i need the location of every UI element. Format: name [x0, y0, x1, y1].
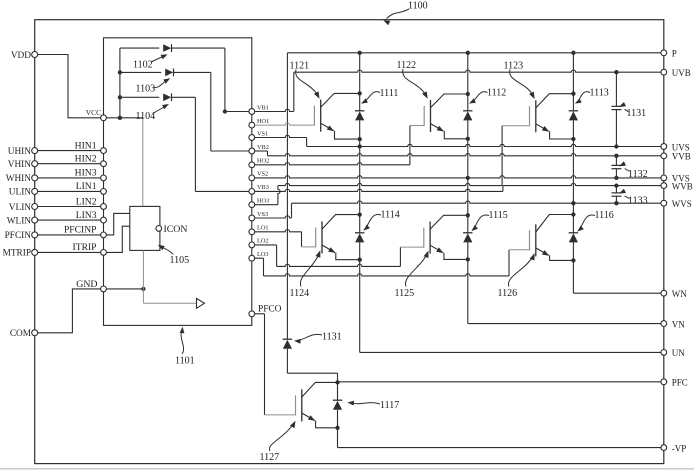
- IGBT 1126: [530, 215, 574, 261]
- label 1101: [175, 327, 195, 367]
- IC pin VB3: [249, 184, 269, 194]
- IC pin GND: [76, 279, 106, 292]
- wire VN: [468, 323, 661, 325]
- svg-text:1131: 1131: [322, 332, 342, 343]
- svg-text:1133: 1133: [628, 195, 648, 206]
- svg-text:1101: 1101: [175, 356, 195, 367]
- svg-text:1102: 1102: [133, 59, 153, 70]
- label 1125: [395, 251, 429, 299]
- svg-text:PFCO: PFCO: [258, 305, 282, 315]
- svg-text:VDD: VDD: [11, 51, 31, 61]
- IC pin HO3: [249, 198, 269, 208]
- free-wheel diode 1117: [333, 400, 342, 410]
- svg-text:1103: 1103: [136, 83, 156, 94]
- label 1112: [469, 87, 506, 103]
- pin WHIN: [6, 174, 38, 184]
- wire VS1 to UVS: [255, 135, 661, 148]
- wire VCC internal bus: [106, 48, 142, 120]
- svg-text:UN: UN: [672, 348, 685, 358]
- IC pin HIN2: [75, 154, 107, 167]
- IC pin VB1: [249, 104, 269, 114]
- IGBT 1121: [314, 93, 359, 139]
- pin VN: [661, 319, 685, 329]
- label 1121: [290, 60, 320, 99]
- bootstrap diode 1104: [120, 93, 249, 191]
- svg-text:LO3: LO3: [257, 251, 269, 258]
- svg-text:1132: 1132: [628, 169, 648, 180]
- wire PFCIN to PFCINP: [38, 234, 101, 236]
- pin ICON: [156, 224, 188, 235]
- svg-text:VLIN: VLIN: [9, 203, 31, 213]
- node PFC emitter: [335, 410, 660, 448]
- label 1123: [504, 60, 535, 99]
- wire VB2 to VVB: [255, 151, 661, 158]
- wire boost diode branch: [287, 53, 337, 383]
- IC pin PFCINP: [64, 225, 106, 238]
- svg-text:1117: 1117: [380, 400, 399, 411]
- pin WVS: [661, 199, 692, 209]
- label 1116: [577, 210, 614, 232]
- bootstrap capacitor 1133: [611, 186, 621, 204]
- svg-text:WHIN: WHIN: [6, 174, 32, 184]
- IGBT 1127: [296, 382, 338, 427]
- pin VHIN: [8, 160, 38, 170]
- svg-text:HO2: HO2: [257, 158, 269, 165]
- svg-text:VB1: VB1: [257, 104, 269, 111]
- pin PFC: [661, 378, 688, 388]
- label 1132: [619, 161, 648, 180]
- svg-text:LIN3: LIN3: [76, 210, 97, 221]
- label 1102: [133, 54, 168, 70]
- node U column lower: [358, 147, 362, 353]
- open arrow at GND branch: [197, 298, 205, 308]
- svg-text:ULIN: ULIN: [9, 188, 31, 198]
- svg-text:1122: 1122: [397, 60, 417, 71]
- label 1105: [158, 245, 189, 266]
- svg-text:VHIN: VHIN: [8, 160, 32, 170]
- svg-text:MTRIP: MTRIP: [3, 249, 31, 259]
- svg-text:VN: VN: [672, 319, 685, 329]
- svg-text:ICON: ICON: [164, 224, 188, 235]
- wire WHIN to HIN3: [38, 177, 101, 179]
- boost diode 1131: [283, 339, 292, 349]
- svg-text:ITRIP: ITRIP: [73, 242, 97, 253]
- node U column upper: [358, 53, 362, 149]
- free-wheel diode 1116: [569, 233, 578, 243]
- label 1122: [397, 60, 428, 99]
- svg-text:1126: 1126: [498, 288, 518, 299]
- IGBT 1125: [424, 215, 468, 259]
- label 1131 boost: [294, 332, 342, 344]
- svg-text:WN: WN: [672, 289, 687, 299]
- svg-text:1105: 1105: [170, 255, 190, 266]
- wire VB3 to WVB: [255, 183, 661, 191]
- svg-text:HO1: HO1: [257, 118, 269, 125]
- IC pin HIN1: [75, 140, 107, 153]
- wire ULIN to LIN1: [38, 190, 101, 192]
- svg-text:1100: 1100: [408, 0, 428, 11]
- label 1126: [498, 253, 535, 299]
- free-wheel diode 1113: [569, 111, 578, 121]
- svg-text:1113: 1113: [590, 87, 609, 98]
- pin PFCIN: [5, 231, 38, 241]
- free-wheel diode 1112: [463, 111, 472, 121]
- IC pin VS1: [249, 130, 268, 140]
- svg-text:VVB: VVB: [672, 152, 691, 162]
- svg-text:WVS: WVS: [672, 199, 692, 209]
- IGBT 1122: [424, 94, 468, 139]
- wire LO3 to gate 1126: [255, 250, 530, 276]
- svg-text:HO3: HO3: [257, 198, 269, 205]
- free-wheel diode 1115: [463, 233, 472, 243]
- IC pin LIN2: [76, 196, 107, 209]
- svg-text:1116: 1116: [595, 210, 614, 221]
- wire WLIN to LIN3: [38, 219, 101, 221]
- bootstrap capacitor 1132: [611, 156, 621, 178]
- pin COM: [10, 329, 38, 339]
- svg-text:HIN2: HIN2: [75, 154, 97, 165]
- label 1127: [260, 421, 296, 463]
- free-wheel diode 1111: [355, 111, 364, 121]
- node W column lower: [571, 203, 575, 293]
- svg-text:COM: COM: [10, 329, 31, 339]
- svg-text:P: P: [672, 49, 677, 59]
- wire COM to GND: [38, 289, 101, 333]
- pin VVS: [661, 174, 690, 184]
- svg-text:VB3: VB3: [257, 184, 269, 191]
- svg-text:-VP: -VP: [672, 443, 687, 453]
- IC pin LIN1: [76, 181, 107, 194]
- wire UN: [360, 351, 661, 353]
- svg-text:WVB: WVB: [672, 181, 693, 191]
- pin P: [661, 49, 677, 59]
- node PFC collector: [335, 380, 660, 400]
- IC pin VCC: [86, 108, 107, 121]
- svg-text:1121: 1121: [290, 60, 310, 71]
- IC pin LO2: [249, 238, 269, 248]
- IC pin PFCO: [249, 305, 282, 317]
- svg-text:1125: 1125: [395, 288, 415, 299]
- node W column upper: [571, 53, 575, 206]
- IC pin HO2: [249, 158, 269, 168]
- svg-text:VCC: VCC: [86, 108, 101, 117]
- svg-text:HIN1: HIN1: [75, 140, 97, 151]
- IC pin VS3: [249, 211, 268, 221]
- pin MTRIP: [3, 249, 38, 259]
- pin ULIN: [9, 188, 38, 198]
- IC pin LO3: [249, 251, 269, 261]
- svg-text:1111: 1111: [380, 88, 399, 99]
- IC pin ITRIP: [73, 242, 107, 255]
- IGBT 1124: [316, 215, 360, 260]
- wire MTRIP to ITRIP: [38, 251, 101, 253]
- svg-text:1114: 1114: [381, 210, 400, 221]
- label 1114: [363, 210, 399, 231]
- wire PFCINP to 1105: [106, 213, 129, 235]
- pin WN: [661, 289, 687, 299]
- pin VVB: [661, 152, 691, 162]
- wire VS3 to WVS: [255, 201, 661, 218]
- wire HO2 to gate 1122: [255, 126, 425, 165]
- free-wheel diode 1114: [355, 233, 364, 243]
- wire VB1 to UVB: [255, 70, 661, 112]
- svg-text:LIN2: LIN2: [76, 196, 97, 207]
- wire HO1 gate lead: [255, 123, 315, 125]
- svg-text:PFCIN: PFCIN: [5, 231, 32, 241]
- svg-text:1131: 1131: [627, 108, 647, 119]
- wire LO1 gate lead: [255, 230, 316, 247]
- IC pin VS2: [249, 171, 268, 181]
- svg-text:1115: 1115: [489, 210, 508, 221]
- label 1111: [361, 88, 398, 104]
- svg-text:PFC: PFC: [672, 378, 688, 388]
- svg-text:1127: 1127: [260, 452, 280, 463]
- pin VDD: [11, 51, 38, 61]
- pin UVB: [661, 68, 691, 78]
- wire LO2 to gate 1125: [255, 245, 424, 267]
- label 1131 cap: [619, 102, 646, 119]
- label 1100: [383, 0, 427, 25]
- wire GND node: [106, 250, 145, 291]
- svg-text:VS3: VS3: [257, 211, 268, 218]
- svg-text:LO2: LO2: [257, 238, 269, 245]
- node V column lower: [466, 178, 470, 324]
- svg-text:1104: 1104: [136, 111, 156, 122]
- wire ITRIP to 1105: [106, 226, 129, 252]
- IC pin VB2: [249, 144, 269, 154]
- wire VS2 to VVS: [255, 176, 661, 180]
- IC pin LIN3: [76, 210, 107, 223]
- label 1103: [136, 78, 171, 94]
- label 1117: [347, 400, 399, 411]
- page edge shadow: [0, 468, 694, 470]
- pin WLIN: [7, 216, 38, 226]
- wire VCC to block 1105: [142, 118, 144, 207]
- svg-text:1124: 1124: [290, 288, 310, 299]
- bootstrap diode 1102: [120, 44, 249, 113]
- svg-text:LIN1: LIN1: [76, 181, 97, 192]
- IGBT 1123: [530, 94, 574, 139]
- label 1113: [575, 87, 609, 103]
- svg-text:LO1: LO1: [257, 225, 269, 232]
- label 1115: [471, 210, 507, 231]
- svg-text:VS2: VS2: [257, 171, 268, 178]
- current controller block 1105: [130, 206, 160, 250]
- wire HO3 to gate 1123: [255, 126, 530, 205]
- wire WN: [573, 292, 660, 294]
- gate driver IC U1101: [104, 38, 252, 326]
- svg-text:PFCINP: PFCINP: [64, 225, 97, 236]
- svg-text:UHIN: UHIN: [8, 147, 32, 157]
- label 1124: [290, 250, 321, 299]
- pin UHIN: [8, 147, 38, 157]
- IC pin HO1: [249, 118, 269, 128]
- svg-text:VB2: VB2: [257, 144, 269, 151]
- svg-text:1123: 1123: [504, 60, 524, 71]
- wire VLIN to LIN2: [38, 206, 101, 208]
- svg-text:1112: 1112: [487, 87, 506, 98]
- svg-text:UVB: UVB: [672, 68, 691, 78]
- svg-text:WLIN: WLIN: [7, 216, 32, 226]
- IC pin LO1: [249, 225, 269, 235]
- wire GND arrow branch: [143, 289, 196, 303]
- wire P bus: [287, 51, 660, 55]
- svg-text:VS1: VS1: [257, 130, 268, 137]
- pin VLIN: [9, 203, 38, 213]
- wire PFCO to gate 1127: [255, 314, 296, 415]
- label 1133: [619, 189, 648, 207]
- label 1104: [136, 104, 170, 122]
- wire UHIN to HIN1: [38, 150, 101, 152]
- pin WVB: [661, 181, 693, 191]
- node V column upper: [466, 53, 470, 180]
- pin -VP: [661, 443, 686, 453]
- IC pin HIN3: [75, 168, 107, 181]
- bootstrap capacitor 1131: [611, 72, 621, 146]
- wire VDD to VCC: [38, 55, 101, 118]
- wire VHIN to HIN2: [38, 163, 101, 165]
- bootstrap diode 1103: [120, 69, 249, 152]
- svg-text:HIN3: HIN3: [75, 168, 97, 179]
- pin UN: [661, 348, 685, 358]
- pin UVS: [661, 142, 690, 152]
